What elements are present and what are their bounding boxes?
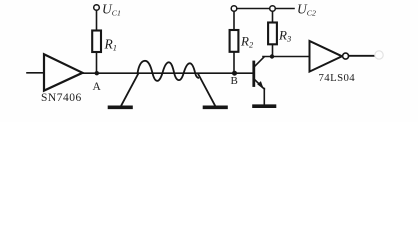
svg-text:R3: R3: [278, 28, 291, 44]
transistor Q1 collector: [255, 57, 265, 67]
ground G3: [254, 104, 275, 108]
wire emitter down: [263, 89, 265, 105]
node B junction dot: [232, 71, 237, 76]
ground G1: [110, 106, 132, 110]
wire node A to node B: [83, 72, 254, 74]
wire collector to 74LS04 input: [263, 56, 310, 58]
wire R3 to collector node: [272, 44, 274, 56]
svg-text:B: B: [231, 75, 238, 87]
transistor Q1 base bar: [252, 62, 255, 86]
resistor R3: [268, 23, 277, 45]
inverter U1 SN7406: [44, 54, 83, 90]
wire output: [349, 55, 374, 57]
inverter U2 output bubble: [343, 53, 349, 59]
wire R2 to node B: [233, 52, 235, 73]
twisted pair wavy conductor: [138, 61, 199, 81]
inverter U2 74LS04: [310, 41, 343, 72]
terminal above R2: [231, 6, 237, 12]
svg-text:SN7406: SN7406: [41, 92, 82, 104]
wire UC1 to R1: [96, 10, 98, 30]
svg-text:A: A: [93, 81, 102, 93]
resistor R1: [92, 31, 101, 53]
wire right ground diagonal: [198, 74, 215, 106]
faint output terminal: [375, 51, 383, 59]
svg-text:R1: R1: [104, 37, 118, 53]
ground G2: [205, 106, 227, 110]
supply rail to UC2: [237, 8, 294, 10]
terminal above R3: [270, 6, 276, 12]
svg-text:R2: R2: [240, 34, 254, 50]
node A junction dot: [95, 71, 99, 75]
terminal UC1: [94, 5, 100, 11]
svg-text:UC2: UC2: [297, 2, 316, 18]
wire input stub to SN7406: [27, 72, 44, 74]
svg-text:UC1: UC1: [102, 2, 121, 18]
resistor R2: [230, 30, 239, 52]
transistor Q1 emitter with arrow: [255, 80, 265, 90]
collector node junction dot: [270, 54, 274, 58]
svg-text:74LS04: 74LS04: [319, 72, 356, 84]
wire R1 to node A: [96, 52, 98, 73]
wire rail to R3: [272, 11, 274, 22]
wire left ground diagonal: [122, 73, 139, 105]
wire rail to R2: [233, 11, 235, 30]
